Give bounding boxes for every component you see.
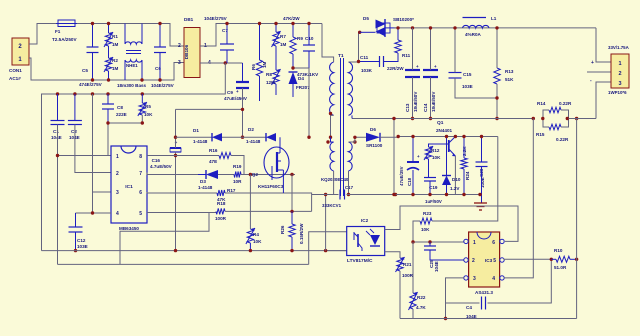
wire C14 bottom lead xyxy=(430,77,432,119)
svg-text:D2: D2 xyxy=(248,127,254,132)
wire C2 bottom to IC1 pin2 xyxy=(75,125,111,173)
rail primary ground 2 xyxy=(58,263,309,265)
junction pin4 riser xyxy=(91,92,94,95)
svg-text:0.15R/2W: 0.15R/2W xyxy=(299,223,304,244)
diode D6 SR1100 xyxy=(366,127,383,148)
junction R24 top xyxy=(462,135,465,138)
wire D3 to R19 xyxy=(218,174,234,176)
wire R13 bottom lead xyxy=(496,84,498,119)
junction C14 bottom xyxy=(429,117,432,120)
svg-text:333KCV1: 333KCV1 xyxy=(322,203,342,208)
svg-text:0.22R: 0.22R xyxy=(556,137,569,142)
resistor R15 0.22R parallel block xyxy=(536,118,569,142)
svg-text:47uE/35V: 47uE/35V xyxy=(399,166,404,186)
transformer T1 lower secondary winding xyxy=(349,142,353,171)
junction C16/gate wire xyxy=(174,136,177,139)
svg-text:KQ2020EC40: KQ2020EC40 xyxy=(321,177,349,182)
transformer T1 primary winding xyxy=(330,53,344,115)
junction C8 top xyxy=(106,92,109,95)
wire choke bottom left lead xyxy=(124,60,126,80)
svg-text:12M: 12M xyxy=(266,80,275,85)
svg-text:R18: R18 xyxy=(217,201,226,206)
wire R21 bottom xyxy=(399,271,401,319)
svg-text:R10: R10 xyxy=(554,248,563,253)
wire R17 to Q2 source rail xyxy=(225,193,312,211)
svg-text:IC3: IC3 xyxy=(485,258,493,263)
resistor R7 1M xyxy=(272,31,287,47)
junction lower sec bottom rail xyxy=(347,193,350,196)
svg-text:51.0R: 51.0R xyxy=(554,265,567,270)
junction +rail a xyxy=(411,26,414,29)
svg-text:C4: C4 xyxy=(466,305,472,310)
net label 1uF/50V xyxy=(425,199,442,204)
plus mark C13 xyxy=(416,64,419,69)
wire C25 top lead xyxy=(429,242,431,246)
diode D10 1.2V xyxy=(442,176,461,192)
wire opto LED anode xyxy=(385,206,518,241)
junction aux rail right end xyxy=(394,193,397,196)
svg-text:D3: D3 xyxy=(200,179,206,184)
svg-text:5: 5 xyxy=(139,211,142,217)
svg-text:100R: 100R xyxy=(402,273,414,278)
resistor R14 0.22R parallel block xyxy=(537,101,572,118)
junction R5 bottom node xyxy=(141,121,144,124)
wire sense to output minus xyxy=(569,118,597,120)
svg-text:1: 1 xyxy=(618,61,621,67)
wire C5 top lead xyxy=(92,24,94,48)
capacitor C11 xyxy=(360,55,384,73)
node lower sec top pin xyxy=(353,140,356,143)
wire D3 anode lead xyxy=(198,174,206,176)
wire R6 bottom lead xyxy=(259,76,261,101)
junction R13 rail xyxy=(495,117,498,120)
svg-text:2N4401: 2N4401 xyxy=(436,128,453,133)
junction R14R15 right xyxy=(566,117,569,120)
svg-text:R6: R6 xyxy=(251,64,256,70)
wire R26 bottom lead xyxy=(291,237,293,251)
junction gate row right xyxy=(290,173,293,176)
junction pin1/C1 xyxy=(56,154,59,157)
wire Q2 drain xyxy=(279,137,281,153)
wire R4 bottom xyxy=(249,243,251,251)
wire aux bottom to C17 rail xyxy=(333,171,335,195)
wire IC3 pin5 row xyxy=(504,258,551,261)
svg-text:L1: L1 xyxy=(491,16,497,21)
wire C4 right to R10 node xyxy=(488,259,552,303)
wire D1 to D2 xyxy=(222,136,266,138)
wire snubber bottom row xyxy=(293,67,309,69)
node aux top pin xyxy=(326,140,329,143)
svg-text:103E: 103E xyxy=(77,244,88,249)
wire rail2 riser to opto xyxy=(309,232,347,265)
svg-text:C5: C5 xyxy=(82,68,88,73)
svg-text:C8: C8 xyxy=(117,105,123,110)
wire gate feedback row xyxy=(176,136,213,138)
inductor L1 xyxy=(463,16,497,37)
svg-text:104E: 104E xyxy=(69,135,80,140)
junction R13 top xyxy=(495,26,498,29)
wire R18 node down-left xyxy=(120,213,209,265)
wire opto emitter to ground rail xyxy=(326,250,347,252)
svg-text:4%R0A: 4%R0A xyxy=(465,32,482,37)
wire C10 bottom lead xyxy=(308,51,310,68)
wire D6 out / Vref wire xyxy=(380,136,498,139)
svg-text:C9: C9 xyxy=(227,90,233,95)
wire C20 bottom lead xyxy=(481,167,483,204)
wire R6 top lead xyxy=(259,24,261,61)
svg-text:NHE1: NHE1 xyxy=(126,63,138,68)
choke L2 core lines xyxy=(117,51,147,89)
resistor R11 22R/2W xyxy=(387,40,411,71)
wire R24 top lead xyxy=(463,137,465,159)
junction C18 bottom xyxy=(411,193,414,196)
svg-text:+: + xyxy=(417,154,420,159)
wire secondary bottom pin xyxy=(351,115,353,118)
capacitor C9 electrolytic xyxy=(224,82,249,101)
svg-text:+: + xyxy=(236,89,239,94)
svg-text:C15: C15 xyxy=(463,72,472,77)
wire IC3 pin4 riser xyxy=(504,119,533,278)
svg-text:6: 6 xyxy=(492,240,495,246)
rail primary ground 1 xyxy=(42,250,347,252)
wire R1-R2 link xyxy=(108,46,110,58)
wire C7 bottom lead xyxy=(226,50,228,63)
junction R24 bottom xyxy=(462,193,465,196)
svg-text:LTV817M/C: LTV817M/C xyxy=(347,258,373,264)
junction C12 on ground rail xyxy=(74,249,77,252)
svg-text:Q1: Q1 xyxy=(437,120,444,126)
wire R4 top xyxy=(249,175,251,230)
junction R13 bottom node xyxy=(495,96,498,99)
svg-text:MB63450: MB63450 xyxy=(119,226,139,231)
resistor R19 xyxy=(233,164,242,184)
junction D6 node xyxy=(353,136,356,139)
wire C8 top lead xyxy=(107,94,109,104)
svg-text:6: 6 xyxy=(139,190,142,196)
svg-text:SR1100: SR1100 xyxy=(366,143,383,148)
svg-text:D5: D5 xyxy=(363,16,369,21)
wire C18 top lead xyxy=(412,137,414,163)
junction R1 top xyxy=(107,22,110,25)
svg-text:10K: 10K xyxy=(144,112,153,117)
svg-text:4.7uE/50V: 4.7uE/50V xyxy=(150,164,173,169)
resistor R12 10K xyxy=(424,146,441,160)
junction R10 right xyxy=(575,258,578,261)
svg-text:R22: R22 xyxy=(417,295,426,300)
svg-text:C11: C11 xyxy=(360,55,369,60)
wire gate node to sense row xyxy=(291,175,293,212)
capacitor C15 xyxy=(449,72,473,89)
svg-text:C17: C17 xyxy=(345,185,354,190)
svg-text:C18: C18 xyxy=(407,177,412,186)
svg-text:3: 3 xyxy=(473,276,476,282)
diode D4 FR207 xyxy=(289,72,311,90)
svg-text:R26: R26 xyxy=(280,225,285,234)
junction D10 bottom xyxy=(445,193,448,196)
diode D3 1N4148 xyxy=(198,170,218,190)
junction R14R15 right outer xyxy=(575,117,578,120)
wire C16 to ground rail xyxy=(175,152,177,251)
diode D5 SB10200 dual xyxy=(360,16,414,37)
svg-text:2: 2 xyxy=(116,171,119,177)
wire opto LED cathode to R21 xyxy=(385,252,400,258)
svg-text:C12: C12 xyxy=(77,238,86,243)
choke L2 common-mode bottom winding xyxy=(125,60,142,62)
capacitor C10 xyxy=(297,36,319,77)
svg-text:R15: R15 xyxy=(536,132,545,137)
rail secondary return xyxy=(352,118,533,120)
ground symbol xyxy=(474,203,487,210)
svg-text:1uF/50V: 1uF/50V xyxy=(425,199,442,204)
junction C13 bottom xyxy=(411,117,414,120)
capacitor C8 xyxy=(102,104,127,117)
svg-text:0.22R: 0.22R xyxy=(559,101,572,106)
junction R6 top xyxy=(258,22,261,25)
junction C6 bottom xyxy=(158,78,161,81)
capacitor C5 xyxy=(79,47,103,87)
wire output minus riser xyxy=(596,82,611,119)
wire aux top pin stub xyxy=(331,137,334,142)
wire D10 bottom lead xyxy=(446,185,448,195)
wire choke top left lead xyxy=(124,24,126,45)
rail aux return right xyxy=(347,194,396,196)
svg-text:104E/275V: 104E/275V xyxy=(204,16,228,21)
junction snubber node xyxy=(291,66,294,69)
svg-text:R23: R23 xyxy=(423,211,432,216)
diode D2 1N4148 xyxy=(246,127,276,144)
junction C20 bottom xyxy=(478,193,481,196)
svg-text:474E/275V: 474E/275V xyxy=(79,82,103,87)
svg-text:D6: D6 xyxy=(370,127,376,132)
rail IC3 pin1 xyxy=(413,241,464,243)
svg-text:T2.5A/250V: T2.5A/250V xyxy=(52,37,77,42)
junction drain wire / snubber xyxy=(307,136,310,139)
wire IC3 pin3 to C4 xyxy=(446,278,464,319)
svg-text:D1: D1 xyxy=(193,128,199,133)
junction R2 bottom xyxy=(107,78,110,81)
rail +33V xyxy=(394,27,596,29)
svg-text:CON1: CON1 xyxy=(9,68,22,73)
wire C18 bottom lead xyxy=(412,170,414,195)
plus mark C14 xyxy=(434,64,437,69)
svg-text:1M: 1M xyxy=(262,61,267,68)
resistor R21 100R xyxy=(396,257,414,278)
svg-text:1M: 1M xyxy=(112,66,119,71)
wire R10 right lead xyxy=(570,258,577,260)
wire pin4 riser xyxy=(92,94,94,213)
junction pin3 riser on bottom rail xyxy=(444,317,447,320)
svg-text:R19: R19 xyxy=(233,164,242,169)
svg-text:C2: C2 xyxy=(71,129,77,134)
wire IC1 pin8 row xyxy=(147,155,219,157)
wire C15 bottom loop xyxy=(455,78,497,98)
svg-text:1M: 1M xyxy=(112,42,119,47)
wire +33V riser xyxy=(596,28,611,62)
capacitor C20 xyxy=(476,162,488,188)
resistor R13 51K xyxy=(494,68,514,84)
svg-text:+: + xyxy=(591,60,594,66)
wire bridge pin4 out xyxy=(200,62,243,64)
wire C10 node to drain wire xyxy=(308,68,310,137)
wire IC1 pin1 row xyxy=(58,155,112,157)
svg-text:47E: 47E xyxy=(209,159,217,164)
wire C12 top lead xyxy=(75,213,77,227)
wire R11 top lead xyxy=(397,28,399,40)
svg-text:1WP10*6: 1WP10*6 xyxy=(608,90,627,95)
svg-text:C14: C14 xyxy=(423,103,428,112)
wire R9 top lead xyxy=(292,24,294,38)
junction R11 top xyxy=(396,26,399,29)
junction R14R15 left outer xyxy=(532,117,535,120)
svg-text:2: 2 xyxy=(618,71,621,77)
capacitor C17 xyxy=(340,190,345,200)
transformer T1 secondary winding xyxy=(349,62,353,115)
optocoupler IC2 LTV817 xyxy=(347,218,385,264)
junction C11 node xyxy=(357,60,360,63)
svg-text:104E: 104E xyxy=(434,261,439,272)
capacitor C14 18uE/50V xyxy=(423,70,438,112)
svg-text:R17: R17 xyxy=(227,188,236,193)
rail aux return xyxy=(312,194,339,196)
svg-text:1: 1 xyxy=(116,154,119,160)
wire R16 to gate node xyxy=(231,156,244,175)
junction bridge pin4 / C7 xyxy=(224,61,227,64)
svg-text:100E: 100E xyxy=(480,177,485,188)
wire C4 left lead xyxy=(446,302,480,304)
svg-text:33V/1.75A: 33V/1.75A xyxy=(608,45,630,50)
svg-text:7: 7 xyxy=(139,171,142,177)
transformer T1 core xyxy=(341,58,344,196)
svg-text:D10: D10 xyxy=(452,177,461,182)
svg-text:100R: 100R xyxy=(215,216,227,221)
junction C9/C16 wire xyxy=(241,108,244,111)
wire R18 to current sense row xyxy=(225,210,312,212)
svg-text:18uE/50V: 18uE/50V xyxy=(431,91,436,112)
wire C5 bottom lead xyxy=(92,53,94,81)
wire C25 bottom to pin2 xyxy=(430,250,464,260)
wire Q2 source xyxy=(282,170,284,193)
wire R7-R8 link xyxy=(275,46,277,70)
junction R10 left xyxy=(550,258,553,261)
svg-text:IC2: IC2 xyxy=(361,218,369,223)
svg-text:10K: 10K xyxy=(253,239,262,244)
regulator IC3 AS431 xyxy=(464,232,504,295)
capacitor C12 xyxy=(69,227,88,249)
svg-text:R5: R5 xyxy=(145,104,151,109)
svg-text:R12: R12 xyxy=(431,148,440,153)
wire lower sec top to D6 xyxy=(349,137,367,142)
wire top rail fuse to bridge xyxy=(77,24,184,47)
node primary bottom pin xyxy=(329,112,332,115)
wire bridge pin1 to DC+ rail xyxy=(200,24,322,47)
wire C20 top lead xyxy=(481,137,483,163)
junction C6 top xyxy=(158,22,161,25)
resistor R17 xyxy=(217,188,236,202)
capacitor C6 xyxy=(151,47,175,88)
bridge rectifier DB1 DB106 xyxy=(178,17,211,78)
svg-text:4.7K: 4.7K xyxy=(416,305,426,310)
wire return-link riser xyxy=(393,119,395,195)
junction C15 top / L1 xyxy=(453,26,456,29)
svg-text:5: 5 xyxy=(493,258,496,264)
wire C2 top lead xyxy=(74,94,76,121)
capacitor C1 xyxy=(51,121,65,141)
trimmer R4 10K xyxy=(246,228,262,244)
junction C16 pin8 row xyxy=(174,154,177,157)
wire C16 column xyxy=(175,109,177,148)
junction R14R15 left xyxy=(541,117,544,120)
wire R7 top lead xyxy=(275,24,277,33)
junction aux rail riser top xyxy=(324,193,327,196)
junction return link bottom xyxy=(392,193,395,196)
junction R9 top xyxy=(291,22,294,25)
svg-text:R9: R9 xyxy=(297,36,303,41)
fuse F1 xyxy=(52,20,77,42)
wire IC1 pin7 row xyxy=(147,173,198,175)
resistor R16 xyxy=(209,148,231,164)
junction Q1 collector xyxy=(454,135,457,138)
wire IC1 pin3 stub xyxy=(93,191,112,193)
junction C16 ground xyxy=(174,249,177,252)
wire lower sec bottom xyxy=(348,171,350,195)
junction C5 top xyxy=(91,22,94,25)
wire D4 bottom lead xyxy=(292,84,294,97)
wire C6 top lead xyxy=(159,24,161,48)
svg-text:3: 3 xyxy=(618,81,621,87)
junction C19 bottom xyxy=(428,193,431,196)
wire Q1 base to R12 xyxy=(429,144,449,147)
svg-text:3: 3 xyxy=(116,190,119,196)
wire R24 bottom lead xyxy=(463,169,465,195)
svg-text:R1: R1 xyxy=(112,34,118,39)
wire DC- return down-left xyxy=(42,63,226,251)
junction riser rail1 xyxy=(324,249,327,252)
rail secondary bottom xyxy=(400,318,577,320)
junction Vref wire left xyxy=(397,135,400,138)
junction C9 column gate wire xyxy=(241,136,244,139)
wire aux rail riser xyxy=(325,195,327,251)
junction return link top xyxy=(392,117,395,120)
wire C10 top lead xyxy=(308,24,310,46)
svg-text:R2: R2 xyxy=(112,58,118,63)
wire secondary top pin xyxy=(349,32,360,62)
svg-text:2: 2 xyxy=(472,258,475,264)
svg-text:51K: 51K xyxy=(505,77,514,82)
svg-text:47uE/450V: 47uE/450V xyxy=(224,96,248,101)
junction C7 top xyxy=(225,22,228,25)
svg-text:R14: R14 xyxy=(537,101,546,106)
wire R9 bottom lead xyxy=(292,54,294,68)
svg-text:R4: R4 xyxy=(253,232,259,237)
junction C25 top xyxy=(428,240,431,243)
wire C13 bottom lead xyxy=(412,77,414,119)
junction R5 top xyxy=(141,92,144,95)
wire C15 top lead xyxy=(454,28,456,73)
wire C9 bottom lead xyxy=(242,88,244,137)
wire primary bottom to drain wire xyxy=(331,115,334,137)
junction R4 ground xyxy=(249,249,252,252)
wire output pin2 stub xyxy=(587,71,611,73)
wire CON1 pin1 to bottom rail xyxy=(29,58,93,80)
svg-text:1-4148: 1-4148 xyxy=(198,185,213,190)
wire R10 leads xyxy=(551,258,556,260)
svg-text:47K/2W: 47K/2W xyxy=(283,16,300,21)
wire IC1 pin4 xyxy=(76,212,112,214)
wire R26 top lead xyxy=(291,211,293,224)
junction C8 rail a xyxy=(56,92,59,95)
svg-text:R7: R7 xyxy=(280,34,286,39)
transistor Q1 2N4401 xyxy=(436,120,456,156)
